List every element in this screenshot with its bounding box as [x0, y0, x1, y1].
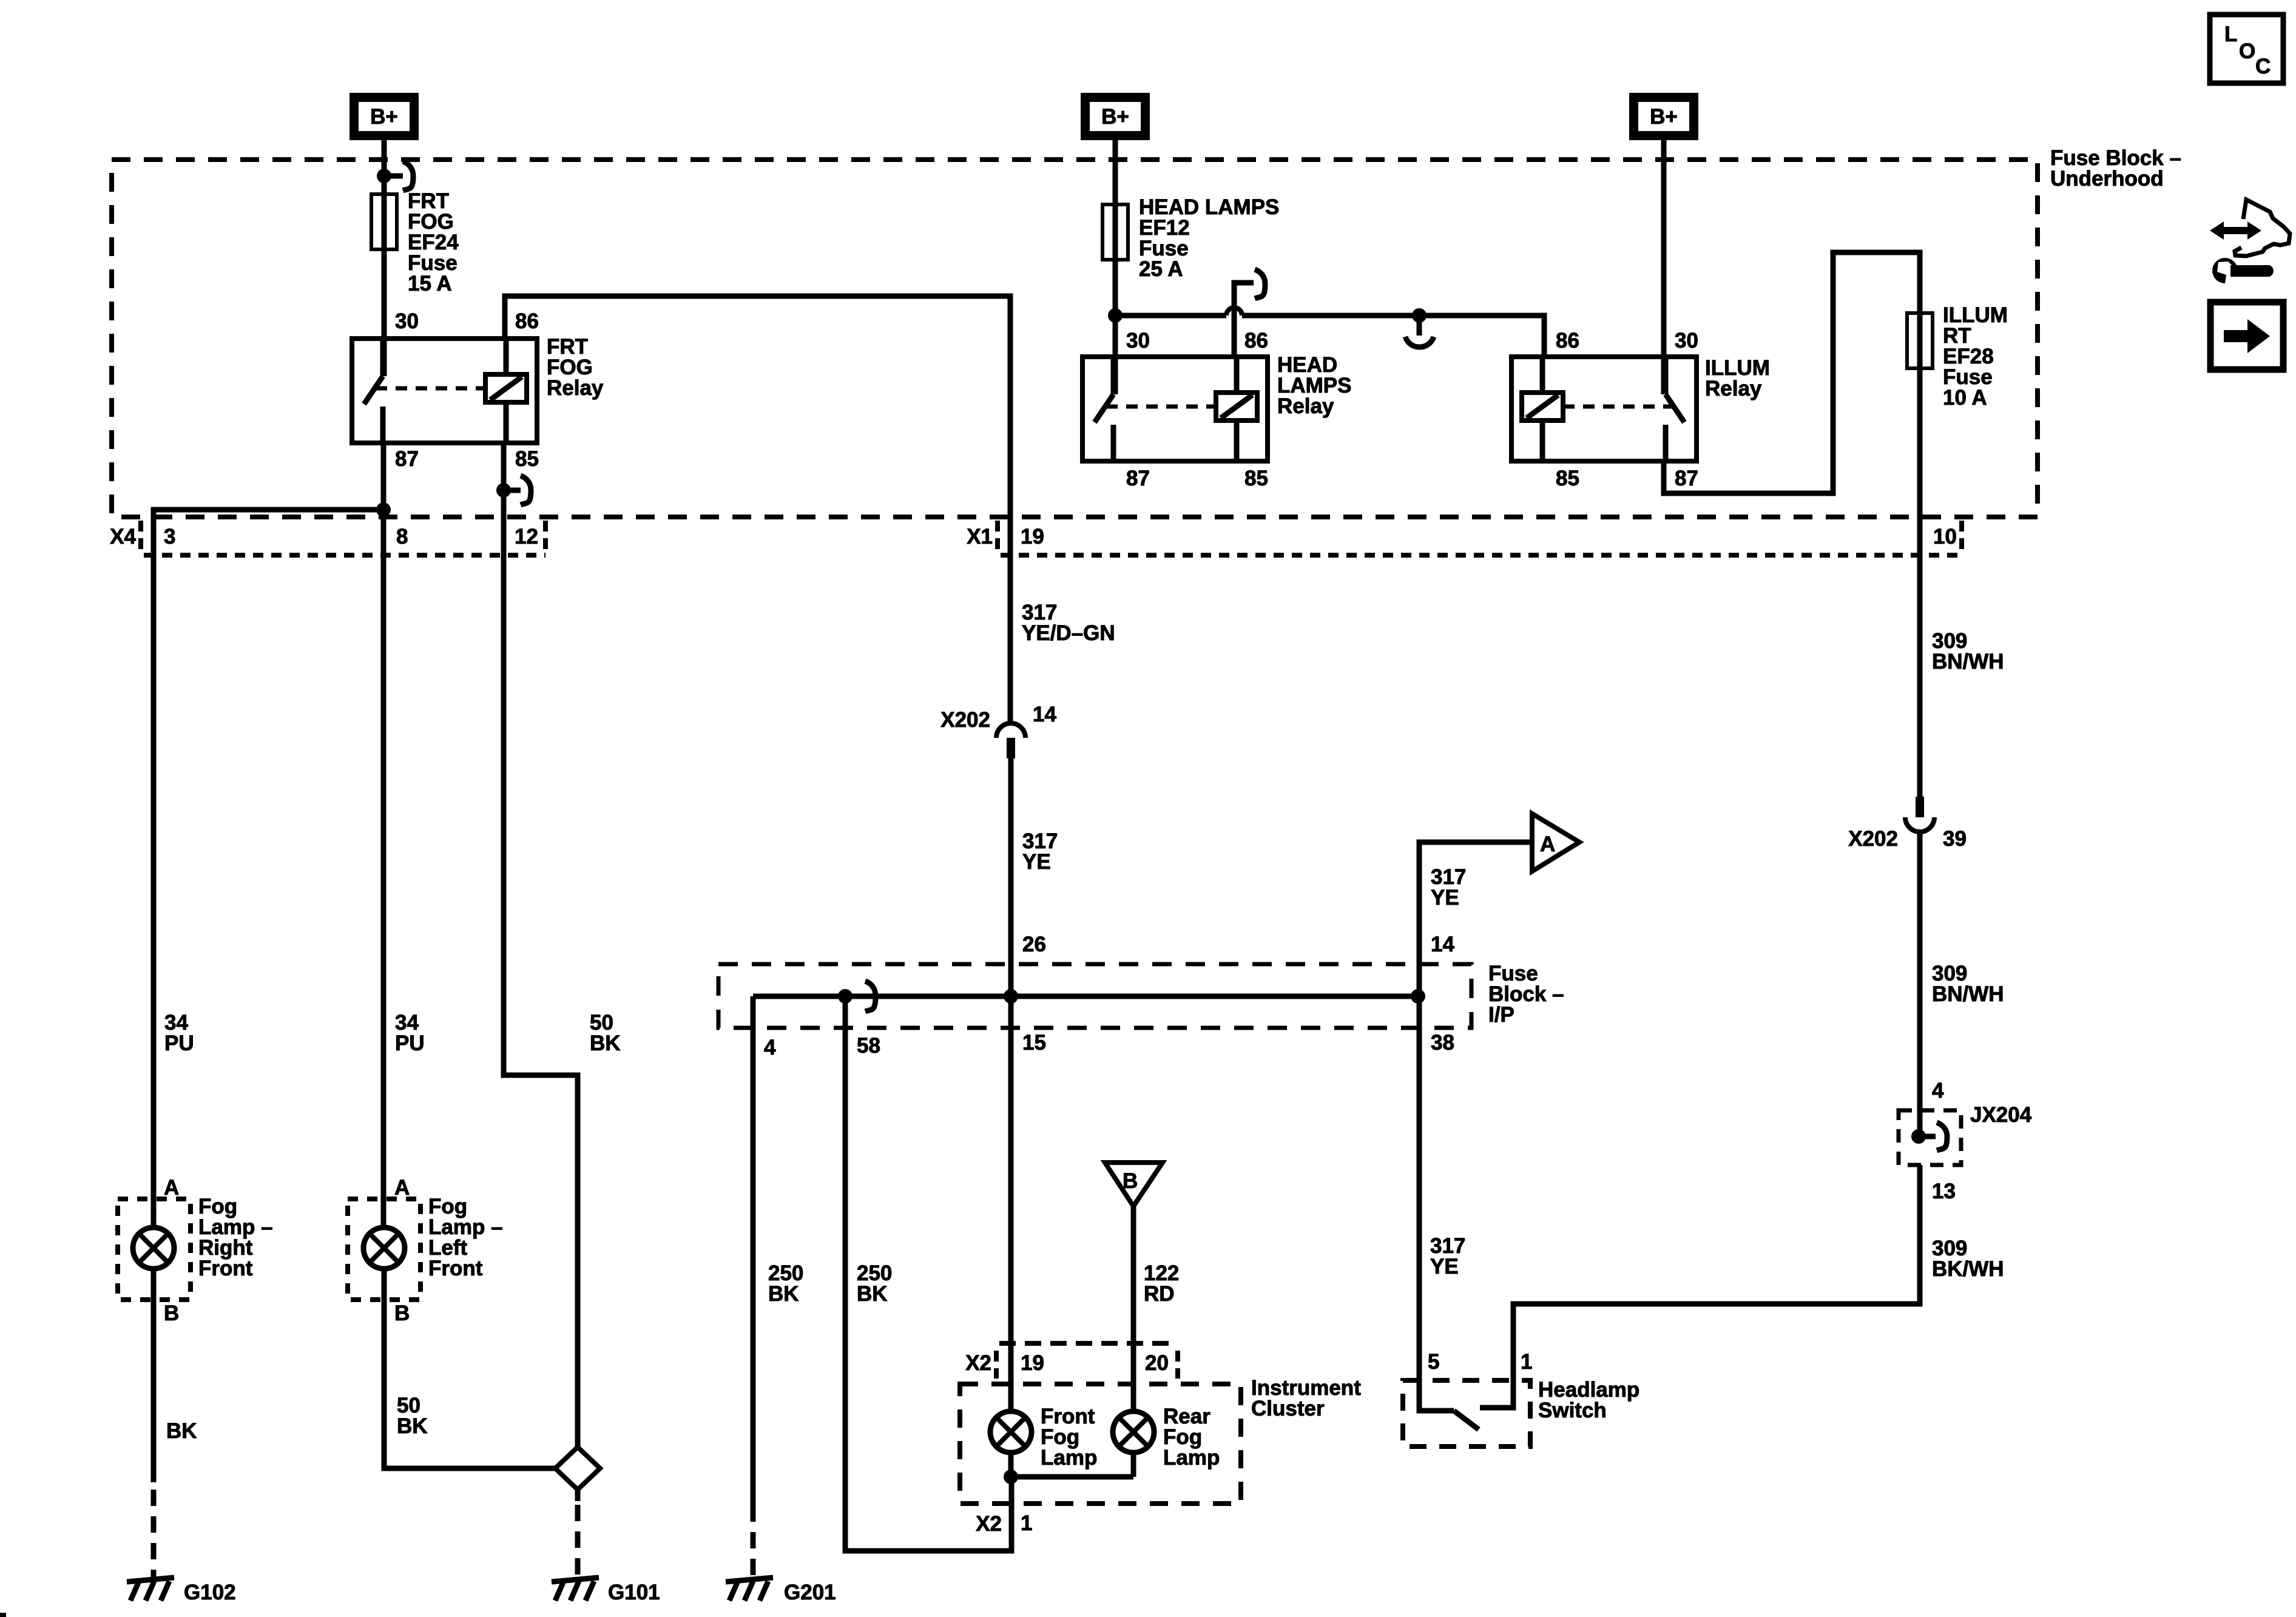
fog lamp left front	[348, 1176, 420, 1325]
label FRT FOG fuse	[408, 189, 459, 295]
svg-text:10: 10	[1933, 525, 1957, 549]
svg-text:B: B	[164, 1301, 179, 1325]
svg-text:38: 38	[1431, 1031, 1454, 1055]
svg-text:39: 39	[1943, 827, 1967, 851]
label FRT FOG relay	[547, 335, 604, 400]
headlamp switch	[1403, 1350, 1532, 1447]
fuse HEAD LAMPS EF12 25 A	[1102, 204, 1128, 260]
B+ terminal (FRT FOG feed)	[349, 93, 419, 140]
diagnostic / connector icon	[2210, 200, 2290, 283]
svg-text:1: 1	[1521, 1350, 1532, 1374]
svg-text:B: B	[394, 1301, 410, 1325]
wire I/P internal bus	[753, 994, 1418, 999]
svg-text:A: A	[394, 1176, 410, 1200]
junction bus clip	[1412, 308, 1427, 323]
svg-text:Relay: Relay	[547, 376, 604, 400]
svg-text:3: 3	[164, 525, 175, 549]
wire B+ to ILLUM relay 30	[1661, 140, 1667, 394]
svg-text:B+: B+	[1650, 105, 1678, 129]
label 317 YE	[1022, 829, 1058, 874]
junction JX204	[1899, 1079, 2032, 1203]
svg-text:26: 26	[1022, 933, 1046, 956]
svg-text:B+: B+	[370, 105, 398, 129]
svg-text:19: 19	[1021, 1351, 1044, 1375]
svg-text:14: 14	[1431, 933, 1454, 956]
junction 85 clip	[496, 483, 511, 498]
triangle A (to headlamps)	[1532, 814, 1579, 871]
svg-text:85: 85	[1556, 467, 1579, 490]
headlamp switch blade	[1454, 1411, 1479, 1430]
svg-text:BK: BK	[397, 1414, 428, 1438]
label 50 BK (relay 85 wire)	[590, 1011, 621, 1055]
ground G201	[726, 1578, 836, 1604]
label FRT FOG relay pins	[395, 309, 539, 471]
label connector X2 pin 1	[976, 1511, 1032, 1536]
svg-text:Underhood: Underhood	[2050, 167, 2164, 191]
wire splice to G101	[575, 1490, 581, 1501]
svg-text:BN/WH: BN/WH	[1932, 650, 2004, 673]
label 250 BK (pin4 wire)	[768, 1261, 803, 1306]
wire branch to fog lamp right	[154, 510, 383, 1229]
splice diamond S-connection	[555, 1447, 600, 1490]
wire FRT FOG relay 87 to fog lamp left	[381, 442, 387, 1229]
label 309 BN/WH (upper)	[1932, 629, 2004, 673]
svg-text:87: 87	[1675, 467, 1698, 490]
svg-text:Relay: Relay	[1277, 394, 1334, 418]
wire hop over HL 86 riser	[1226, 308, 1242, 316]
page corner mark	[0, 1613, 6, 1617]
ground G101	[552, 1578, 660, 1604]
svg-text:Front: Front	[198, 1257, 253, 1280]
svg-text:JX204: JX204	[1970, 1103, 2032, 1127]
svg-text:4: 4	[1932, 1079, 1944, 1102]
svg-text:X1: X1	[967, 525, 993, 549]
svg-text:X202: X202	[940, 708, 990, 732]
svg-text:YE: YE	[1430, 1255, 1459, 1278]
svg-text:5: 5	[1428, 1350, 1439, 1374]
svg-text:BK: BK	[768, 1282, 799, 1306]
svg-text:X202: X202	[1848, 827, 1898, 851]
svg-text:30: 30	[1675, 329, 1698, 353]
B+ terminal (ILLUM feed)	[1629, 93, 1698, 140]
svg-text:85: 85	[515, 447, 539, 471]
svg-text:15 A: 15 A	[408, 272, 452, 295]
svg-text:G201: G201	[784, 1581, 836, 1604]
wire pin14 to triangle A	[1419, 842, 1532, 996]
svg-text:RD: RD	[1144, 1282, 1175, 1306]
label 309 BK/WH	[1932, 1237, 2004, 1281]
label HEAD LAMPS fuse	[1139, 195, 1279, 281]
svg-text:8: 8	[396, 525, 408, 549]
svg-text:Cluster: Cluster	[1251, 1397, 1325, 1420]
label front fog lamp	[1041, 1405, 1097, 1470]
svg-text:86: 86	[515, 309, 539, 333]
wire FRT FOG relay 85 (50 BK)	[504, 442, 578, 1447]
label 50 BK (left lamp ground)	[397, 1394, 428, 1438]
label 317 YE (A branch)	[1431, 865, 1466, 910]
svg-text:58: 58	[857, 1034, 880, 1058]
svg-text:BK/WH: BK/WH	[1932, 1257, 2004, 1281]
label 317 YE (switch)	[1430, 1234, 1465, 1278]
front fog indicator lamp	[990, 1411, 1032, 1453]
clip HL 86	[1255, 269, 1265, 299]
svg-text:X4: X4	[110, 525, 136, 549]
svg-text:87: 87	[1126, 467, 1150, 490]
ground G102	[127, 1578, 236, 1604]
svg-text:19: 19	[1021, 525, 1044, 549]
label I/P pins	[764, 933, 1454, 1059]
label HEAD LAMPS relay	[1277, 353, 1352, 418]
wire left lamp to splice	[384, 1268, 555, 1468]
fuse FRT FOG EF24 15 A	[371, 194, 397, 249]
label 309 BN/WH (lower)	[1932, 962, 2004, 1006]
label fuse block I/P	[1488, 962, 1564, 1027]
svg-text:30: 30	[395, 309, 419, 333]
svg-text:4: 4	[764, 1036, 776, 1059]
label 317 YE/D-GN	[1022, 601, 1115, 645]
data link arrow icon	[2210, 302, 2283, 370]
label headlamp switch	[1538, 1378, 1639, 1422]
svg-text:I/P: I/P	[1488, 1003, 1514, 1027]
svg-text:L: L	[2224, 22, 2237, 46]
rear fog indicator lamp	[1113, 1411, 1154, 1453]
instrument cluster box	[960, 1384, 1241, 1504]
connector X202 pin 39	[1848, 797, 1967, 851]
svg-text:G102: G102	[184, 1581, 236, 1604]
fuse block underhood label	[2050, 146, 2181, 191]
svg-text:YE: YE	[1022, 850, 1051, 874]
connector row X2 (cluster)	[965, 1343, 1178, 1379]
svg-text:BN/WH: BN/WH	[1932, 982, 2004, 1006]
junction bus/pin58	[838, 989, 853, 1004]
svg-text:PU: PU	[164, 1031, 194, 1055]
label 34 PU (left lamp)	[395, 1011, 425, 1055]
B+ terminal (HEAD LAMPS feed)	[1081, 93, 1150, 140]
junction 87 branch	[376, 502, 391, 517]
label rear fog lamp	[1163, 1405, 1220, 1470]
fuse block I/P box	[718, 964, 1471, 1028]
svg-text:PU: PU	[395, 1031, 425, 1055]
fuse ILLUM RT EF28 10 A	[1907, 313, 1933, 368]
svg-text:15: 15	[1022, 1031, 1046, 1055]
svg-text:Lamp: Lamp	[1041, 1446, 1097, 1470]
svg-text:87: 87	[395, 447, 419, 471]
svg-text:Lamp: Lamp	[1163, 1446, 1220, 1470]
svg-text:A: A	[1540, 832, 1555, 856]
svg-text:20: 20	[1145, 1351, 1169, 1375]
svg-text:G101: G101	[608, 1581, 660, 1604]
svg-text:X2: X2	[965, 1351, 991, 1375]
svg-text:YE/D–GN: YE/D–GN	[1022, 621, 1115, 645]
svg-text:1: 1	[1021, 1511, 1032, 1535]
svg-text:25 A: 25 A	[1139, 257, 1183, 281]
label instrument cluster	[1251, 1376, 1361, 1420]
junction at FRT FOG fuse feed	[377, 169, 391, 183]
connector X202 pin 14	[940, 703, 1056, 758]
wire HEAD LAMPS relay 86 riser	[1234, 283, 1254, 357]
wire right lamp to G102	[151, 1268, 157, 1482]
wire X202-14 to fuse block I/P pin 26	[1008, 758, 1014, 1411]
svg-text:X2: X2	[976, 1512, 1002, 1536]
svg-text:O: O	[2239, 39, 2255, 63]
triangle B (from rear fog feed)	[1105, 1163, 1163, 1206]
label HEAD LAMPS relay pins	[1126, 329, 1268, 490]
wire pin38 to headlamp switch 5	[1419, 996, 1454, 1411]
wire feed bus to ILLUM relay 86	[1115, 313, 1226, 319]
label 34 PU (right lamp)	[164, 1011, 194, 1055]
junction cluster lamps	[1004, 1470, 1018, 1484]
label ILLUM relay pins	[1556, 329, 1698, 490]
svg-text:A: A	[164, 1176, 179, 1200]
svg-text:86: 86	[1556, 329, 1579, 353]
label fog lamp right front	[198, 1195, 273, 1280]
junction bus/pin15	[1004, 989, 1018, 1004]
svg-text:Front: Front	[428, 1257, 483, 1280]
connector row X4	[110, 521, 545, 555]
wire FRT FOG relay 86 to X1-19	[505, 296, 1010, 723]
label ILLUM relay	[1705, 356, 1770, 400]
wire ILLUM relay 87 to fuse EF28	[1664, 252, 1920, 797]
junction bus/pin38	[1411, 989, 1425, 1004]
svg-text:85: 85	[1244, 467, 1268, 490]
svg-text:YE: YE	[1431, 886, 1459, 910]
svg-text:Relay: Relay	[1705, 377, 1762, 400]
wire pin58 to instrument cluster X2-1	[845, 996, 1011, 1551]
svg-text:BK: BK	[590, 1031, 621, 1055]
wire pin4 to G201	[751, 996, 756, 1505]
svg-text:30: 30	[1126, 329, 1150, 353]
wire triangle B to cluster pin 20	[1131, 1206, 1136, 1411]
svg-text:C: C	[2255, 55, 2271, 78]
wire X202-39 to JX204	[1917, 832, 1923, 1136]
svg-text:14: 14	[1033, 703, 1056, 726]
wire B+ to HEAD LAMPS relay 30	[1113, 140, 1118, 394]
label 122 RD	[1144, 1261, 1179, 1306]
svg-text:86: 86	[1244, 329, 1268, 353]
label 250 BK (pin58 wire)	[857, 1261, 892, 1306]
svg-text:B: B	[1123, 1169, 1138, 1193]
svg-text:10 A: 10 A	[1943, 386, 1987, 410]
locator LOC box	[2210, 15, 2283, 83]
svg-text:Switch: Switch	[1538, 1399, 1607, 1422]
svg-text:12: 12	[515, 525, 538, 549]
relay HEAD LAMPS	[1082, 357, 1268, 461]
label fog lamp left front	[428, 1195, 503, 1280]
svg-text:BK: BK	[166, 1419, 197, 1443]
wire JX204 to headlamp switch 1	[1480, 1165, 1920, 1408]
svg-text:BK: BK	[857, 1282, 888, 1306]
junction headlamp feed	[1108, 308, 1123, 323]
fog lamp right front	[118, 1176, 191, 1325]
connector row X1	[967, 521, 1962, 555]
svg-text:B+: B+	[1101, 105, 1129, 129]
relay ILLUM	[1511, 357, 1697, 461]
relay FRT FOG	[352, 339, 537, 443]
label ILLUM RT fuse	[1943, 303, 2008, 410]
wire B+ to FRT FOG relay 30	[382, 140, 387, 376]
svg-text:13: 13	[1932, 1180, 1956, 1203]
fuse block underhood box	[112, 160, 2038, 517]
wire cluster lamps common	[1008, 1453, 1014, 1477]
